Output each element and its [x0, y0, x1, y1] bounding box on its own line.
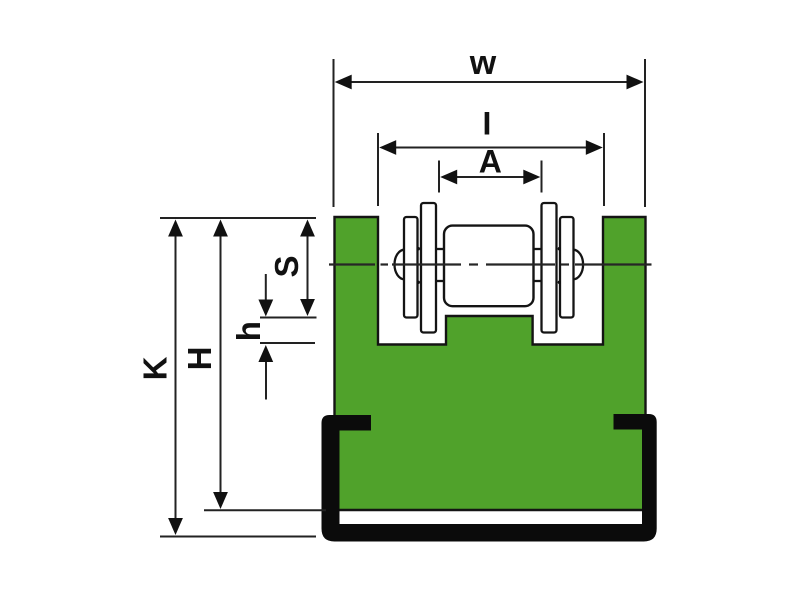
left outer link plate	[404, 217, 418, 318]
dimension H	[220, 222, 222, 506]
H bottom extension	[204, 509, 326, 511]
svg-text:A: A	[479, 143, 502, 179]
roller	[444, 226, 534, 307]
dimension S	[307, 222, 309, 313]
svg-text:K: K	[137, 356, 174, 380]
dimension W	[334, 59, 646, 207]
svg-text:H: H	[181, 347, 218, 371]
dimension K	[175, 222, 177, 532]
dimension h lower arrow	[265, 349, 267, 400]
h lower extension	[260, 342, 315, 344]
right outer link plate	[560, 217, 574, 318]
black mounting C-rail	[322, 414, 657, 542]
svg-text:S: S	[268, 255, 305, 277]
left inner link plate	[421, 203, 436, 333]
right pin end	[573, 250, 583, 280]
svg-text:I: I	[483, 106, 492, 142]
right inner link plate	[542, 203, 557, 333]
centerline	[329, 263, 652, 265]
pin rivet dots	[417, 247, 420, 250]
top reference line	[160, 217, 316, 219]
right bushing	[533, 249, 543, 281]
green guide profile	[335, 217, 646, 510]
dimension I	[378, 133, 604, 206]
dimension A	[439, 161, 542, 193]
S/h middle extension	[260, 317, 317, 319]
svg-text:h: h	[230, 321, 267, 341]
left pin end	[395, 250, 405, 280]
dimension h upper arrow	[265, 274, 267, 313]
svg-text:w: w	[469, 44, 497, 82]
left bushing	[436, 249, 446, 281]
K bottom extension	[160, 536, 316, 538]
